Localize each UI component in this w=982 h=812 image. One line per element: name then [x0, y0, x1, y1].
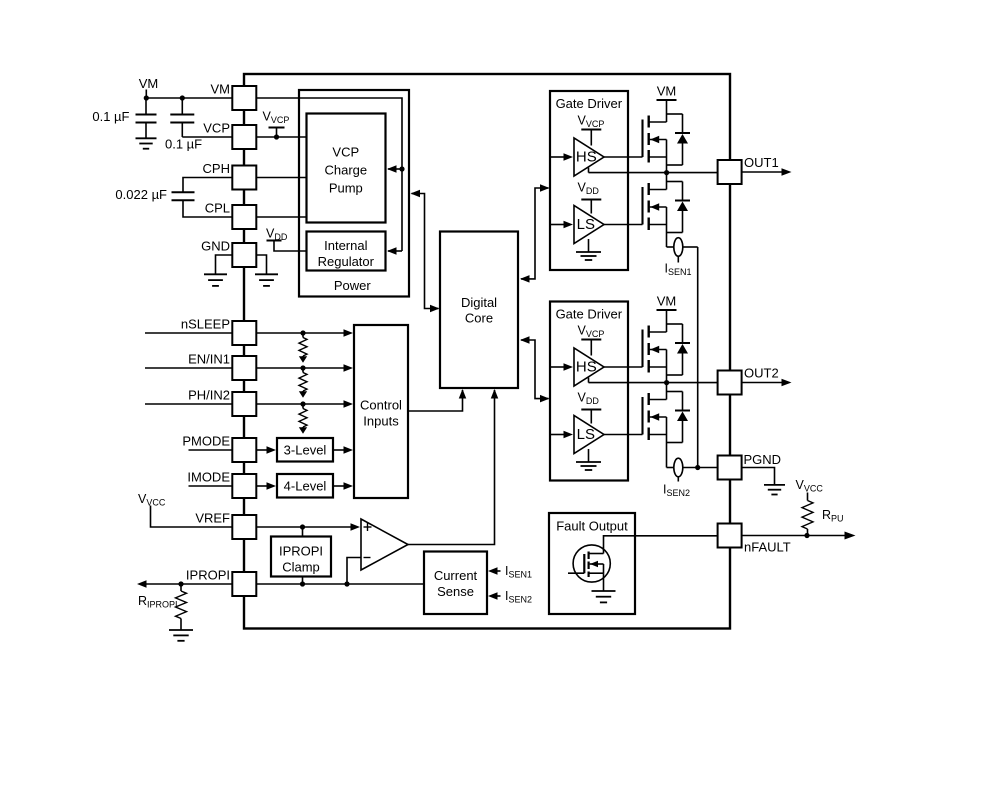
svg-text:Sense: Sense: [437, 584, 474, 599]
block Control Inputs: [354, 325, 408, 498]
svg-text:VM: VM: [139, 76, 159, 91]
svg-text:IMODE: IMODE: [187, 470, 230, 485]
transistor Q2 (low-side NMOS): [643, 173, 667, 247]
wire comparator output to Digital Core (arrow): [408, 389, 498, 545]
ground at GND pin (left): [204, 255, 232, 286]
svg-text:CPL: CPL: [205, 201, 230, 216]
wire CPL to charge pump: [256, 216, 306, 218]
wire PMODE external stub: [189, 449, 233, 451]
wire VM rail to VM pin: [146, 95, 232, 100]
pin CPH: [203, 161, 257, 190]
wire Digital Core to Gate Driver 2 (bidirectional): [520, 336, 550, 402]
svg-text:Gate Driver: Gate Driver: [556, 96, 623, 111]
block Power: [299, 90, 409, 297]
wire nFAULT external (arrow): [742, 532, 856, 540]
svg-text:LS: LS: [577, 426, 595, 443]
svg-text:PGND: PGND: [744, 452, 782, 467]
block IPROPI Clamp: [271, 537, 331, 577]
node VCC (to VREF): [138, 492, 232, 527]
node VDD in Gate Driver 2: [578, 391, 602, 424]
wire 3-Level to Control Inputs (arrow): [333, 446, 353, 454]
resistor RPU pullup to VCC: [796, 478, 844, 536]
block Gate Driver 2: [550, 302, 628, 481]
svg-text:Charge: Charge: [324, 163, 367, 178]
junction ISEN1/ISEN2 at PGND: [695, 465, 700, 470]
wire PMODE to 3-Level (arrow): [256, 446, 276, 454]
transistor Q5 (open-drain fault NMOS): [568, 545, 610, 582]
node VM supply for half-bridge 2: [657, 294, 677, 325]
wire ISEN2 into Current Sense (arrow): [488, 589, 532, 605]
amplifier LS1: [574, 206, 604, 244]
wire OUT2 external (arrow): [742, 379, 792, 387]
wire PH/IN2 to Control Inputs (arrow): [256, 400, 353, 408]
svg-text:Clamp: Clamp: [282, 560, 320, 575]
wire Control Inputs to Digital Core (arrow): [408, 389, 466, 411]
wire Digital Core to Gate Driver 1 (bidirectional): [520, 184, 550, 282]
amplifier HS1: [574, 138, 604, 176]
wire EN/IN1 external stub: [145, 367, 232, 369]
block Fault Output: [549, 513, 635, 614]
svg-text:LS: LS: [577, 216, 595, 233]
wire HS1 gate: [604, 156, 643, 158]
wire IPROPI to comparator inverting input: [347, 558, 361, 585]
node VM supply: [139, 76, 159, 101]
wire PH/IN2 external stub: [145, 403, 232, 405]
pulldown resistor on nSLEEP: [299, 333, 307, 363]
svg-text:Regulator: Regulator: [318, 254, 375, 269]
svg-text:Power: Power: [334, 278, 372, 293]
ground at GND pin (right): [255, 255, 278, 286]
svg-text:0.1 µF: 0.1 µF: [165, 137, 202, 152]
wire nSLEEP to Control Inputs (arrow): [256, 329, 353, 337]
svg-text:4-Level: 4-Level: [284, 478, 327, 493]
pin EN/IN1: [188, 352, 256, 381]
svg-text:Digital: Digital: [461, 295, 497, 310]
wire VCP to charge pump: [256, 134, 306, 139]
pin GND: [201, 239, 256, 268]
wire IPROPI internal to Current Sense: [256, 581, 424, 586]
block 3-Level: [277, 438, 333, 462]
svg-text:CPH: CPH: [203, 161, 230, 176]
pin VREF: [195, 511, 256, 540]
svg-text:Fault Output: Fault Output: [556, 518, 628, 533]
transistor Q3 (high-side NMOS): [643, 324, 667, 383]
svg-text:EN/IN1: EN/IN1: [188, 352, 230, 367]
svg-text:HS: HS: [576, 359, 597, 376]
svg-text:OUT2: OUT2: [744, 366, 779, 381]
op-amp U1 (current comparator): [361, 519, 408, 570]
svg-text:Inputs: Inputs: [363, 414, 399, 429]
chip outline (device boundary): [244, 74, 730, 629]
capacitor C2 0.1 uF (VM to VCP): [165, 98, 232, 152]
wire VREF to comparator noninverting input (arrow): [256, 523, 360, 531]
pin PMODE: [182, 434, 256, 463]
amplifier LS2: [574, 416, 604, 454]
ground in Gate Driver 2: [576, 449, 601, 470]
resistor RIPROPI: [138, 584, 193, 641]
wire LS1 gate: [604, 224, 643, 226]
node VVCP at VCP pin: [263, 110, 290, 138]
svg-text:Current: Current: [434, 568, 478, 583]
node VVCP in Gate Driver 2: [578, 324, 605, 356]
node VDD in Gate Driver 1: [578, 181, 602, 214]
svg-text:0.1 µF: 0.1 µF: [92, 109, 129, 124]
svg-text:PMODE: PMODE: [182, 434, 230, 449]
svg-text:GND: GND: [201, 239, 230, 254]
wire OUT1 external (arrow): [742, 168, 792, 176]
svg-text:OUT1: OUT1: [744, 155, 779, 170]
diode D4 (body diode): [667, 392, 691, 443]
wire 4-Level to Control Inputs (arrow): [333, 482, 353, 490]
pulldown resistor on PH/IN2: [299, 404, 307, 434]
wire HS2 input (arrow): [550, 363, 573, 371]
wire VM internal rail: [256, 98, 404, 251]
wire IPROPI clamp to IPROPI line: [302, 577, 304, 585]
svg-text:Internal: Internal: [324, 238, 367, 253]
pin OUT1: [718, 155, 779, 184]
wire LS1 input (arrow): [550, 221, 573, 229]
pin IPROPI: [186, 568, 256, 597]
pin OUT2: [718, 366, 779, 395]
wire fault drain to nFAULT: [604, 536, 718, 554]
svg-text:nSLEEP: nSLEEP: [181, 317, 230, 332]
diode D3 (body diode): [667, 324, 691, 375]
wire LS2 gate: [604, 434, 643, 436]
node VVCP in Gate Driver 1: [578, 114, 605, 146]
ground at PGND pin: [742, 468, 785, 495]
block VCP Charge Pump: [307, 114, 386, 223]
wire IMODE to 4-Level (arrow): [256, 482, 276, 490]
svg-text:IPROPI: IPROPI: [279, 544, 323, 559]
wire nSLEEP external stub: [145, 332, 232, 334]
ground in Fault Output: [592, 573, 616, 602]
pin IMODE: [187, 470, 256, 499]
wire CPH to charge pump: [256, 177, 306, 179]
block Current Sense: [424, 552, 487, 615]
wire Power to Digital Core (bidirectional): [411, 190, 440, 313]
svg-text:Gate Driver: Gate Driver: [556, 306, 623, 321]
svg-text:3-Level: 3-Level: [284, 442, 327, 457]
wire OUT1 node: [589, 168, 718, 176]
current sensor ISEN2 (ellipse): [663, 458, 718, 498]
wire IPROPI external with arrow: [137, 580, 232, 588]
wire ISEN1 to PGND node: [697, 247, 699, 468]
svg-text:Pump: Pump: [329, 181, 363, 196]
node VM supply for half-bridge 1: [657, 84, 677, 115]
svg-text:0.022 µF: 0.022 µF: [115, 187, 167, 202]
ground in Gate Driver 1: [576, 239, 601, 260]
block Gate Driver 1: [550, 91, 628, 270]
pin PGND: [718, 452, 781, 480]
svg-text:Core: Core: [465, 310, 493, 325]
diode D2 (body diode): [667, 182, 691, 233]
svg-text:PH/IN2: PH/IN2: [188, 388, 230, 403]
pulldown resistor on EN/IN1: [299, 368, 307, 398]
wire VM to internal regulator (arrow): [387, 247, 402, 255]
amplifier HS2: [574, 348, 604, 386]
wire OUT2 node: [589, 378, 718, 386]
block 4-Level: [277, 474, 333, 498]
wire HS1 input (arrow): [550, 153, 573, 161]
svg-text:HS: HS: [576, 149, 597, 166]
pin VM: [211, 82, 257, 111]
pin nFAULT: [718, 524, 791, 555]
block Internal Regulator: [307, 232, 386, 271]
pin PH/IN2: [188, 388, 256, 417]
pin CPL: [205, 201, 257, 230]
svg-text:VM: VM: [211, 82, 231, 97]
svg-text:VCP: VCP: [332, 145, 359, 160]
wire HS2 gate: [604, 366, 643, 368]
diode D1 (body diode): [667, 114, 691, 165]
capacitor C1 0.1 uF (VM to GND): [92, 98, 156, 149]
svg-text:Control: Control: [360, 398, 402, 413]
svg-text:VM: VM: [657, 84, 677, 99]
current sensor ISEN1 (ellipse): [665, 238, 698, 277]
wire VM to charge pump (arrow): [387, 165, 402, 173]
svg-text:IPROPI: IPROPI: [186, 568, 230, 583]
wire EN/IN1 to Control Inputs (arrow): [256, 364, 353, 372]
transistor Q1 (high-side NMOS): [643, 114, 667, 173]
wire IMODE external stub: [189, 485, 233, 487]
node VDD to internal regulator: [266, 226, 307, 251]
transistor Q4 (low-side NMOS): [643, 383, 667, 468]
svg-text:VM: VM: [657, 294, 677, 309]
pin VCP: [203, 121, 256, 150]
svg-text:VCP: VCP: [203, 121, 230, 136]
wire LS2 input (arrow): [550, 431, 573, 439]
pin nSLEEP: [181, 317, 256, 346]
svg-text:VREF: VREF: [195, 511, 230, 526]
capacitor C3 0.022 uF (CPH to CPL): [115, 178, 232, 218]
svg-text:nFAULT: nFAULT: [744, 540, 791, 555]
wire ISEN1 into Current Sense (arrow): [488, 564, 532, 580]
block Digital Core: [440, 232, 518, 389]
wire VREF to IPROPI clamp: [302, 527, 304, 537]
